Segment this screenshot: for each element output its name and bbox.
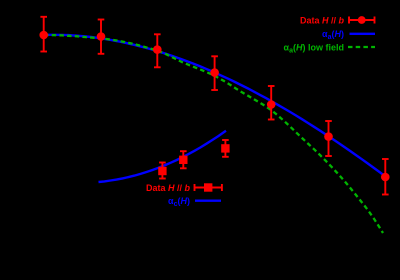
data point S3 error bar (222, 140, 229, 157)
data point P1 marker (39, 31, 48, 40)
data point P6 marker (324, 132, 333, 141)
data point S3 marker (221, 144, 229, 152)
data point S1 error bar (159, 163, 166, 179)
data point P3 marker (153, 45, 162, 54)
data point P7 marker (381, 173, 390, 182)
data point P6 error bar (325, 121, 332, 156)
data point P4 marker (210, 68, 219, 77)
data point S2 error bar (180, 151, 187, 168)
data point P4 error bar (211, 56, 218, 90)
curve alpha_a(H) fit (blue solid, upper) (44, 35, 385, 176)
data point S1 marker (158, 167, 166, 175)
data point P5 error bar (268, 86, 275, 120)
svg-text:Data H // b: Data H // b (300, 16, 345, 26)
data point P1 error bar (40, 17, 47, 52)
data point P7 error bar (382, 159, 389, 195)
data point S2 marker (179, 156, 187, 164)
data point P3 error bar (154, 34, 161, 67)
curve alpha_a(H) low field (green dashed) (44, 35, 383, 233)
data point P2 error bar (98, 20, 105, 54)
data point P2 marker (97, 32, 106, 41)
data point P5 marker (267, 100, 276, 109)
svg-text:Data H // b: Data H // b (146, 183, 191, 193)
curve alpha_c(H) fit (blue solid, lower) (99, 131, 227, 182)
